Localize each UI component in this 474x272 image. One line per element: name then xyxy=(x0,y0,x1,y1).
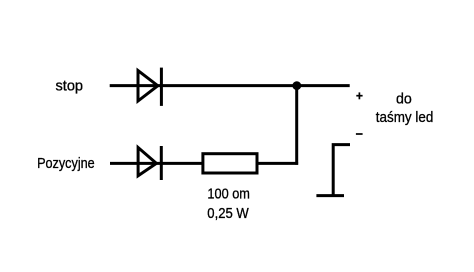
resistor R1 body xyxy=(203,154,257,173)
node junction dot xyxy=(292,81,301,90)
wire junction to bottom branch (vertical) xyxy=(295,86,298,165)
svg-text:do: do xyxy=(396,91,412,107)
svg-text:taśmy led: taśmy led xyxy=(376,109,433,126)
svg-text:Pozycyjne: Pozycyjne xyxy=(37,154,95,171)
svg-text:stop: stop xyxy=(56,78,84,94)
label + terminal xyxy=(356,92,362,99)
wire stop branch (horizontal) xyxy=(110,84,350,87)
diode D1 (stop branch) xyxy=(138,68,161,106)
terminal symbol minus side (bracket) xyxy=(316,145,350,196)
svg-text:0,25 W: 0,25 W xyxy=(207,204,249,221)
diode D2 (pozycyjne branch) xyxy=(138,146,161,180)
label minus terminal xyxy=(356,133,363,135)
svg-text:100 om: 100 om xyxy=(207,185,250,202)
wire pozycyjne branch (horizontal) xyxy=(110,162,298,165)
